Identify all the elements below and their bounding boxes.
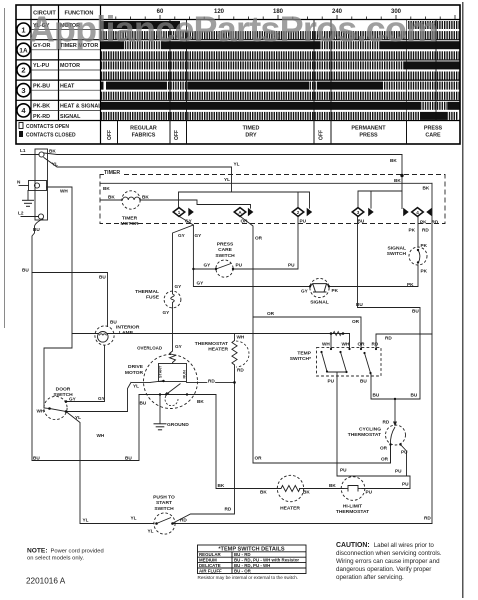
svg-text:WH: WH (37, 409, 45, 414)
motor winding box (159, 364, 187, 382)
svg-text:YL: YL (234, 162, 240, 167)
svg-text:GY: GY (204, 263, 212, 268)
wire RD right-side loop (431, 183, 433, 523)
wire BK segment to cam 3 (358, 191, 402, 208)
right follower of cam 4 (426, 208, 432, 216)
svg-text:MOTOR: MOTOR (125, 370, 144, 376)
svg-text:YL: YL (52, 162, 58, 167)
svg-text:BK: BK (103, 186, 110, 191)
follower of cam 3 (368, 208, 374, 216)
svg-text:RD: RD (225, 507, 232, 512)
svg-text:PK: PK (421, 243, 428, 248)
svg-text:DOOR: DOOR (56, 387, 71, 393)
svg-text:LAMP: LAMP (119, 330, 134, 336)
svg-text:RD: RD (372, 342, 379, 347)
page right border (462, 2, 464, 598)
svg-text:HI-LIMIT: HI-LIMIT (343, 504, 362, 510)
svg-text:RD: RD (208, 379, 215, 384)
signal switch dashed circle (409, 247, 427, 265)
svg-text:BU: BU (22, 268, 29, 273)
svg-text:RD: RD (383, 420, 390, 425)
thermal fuse element (171, 291, 175, 307)
motor ground lead (159, 395, 161, 424)
timer dashed enclosure (100, 175, 445, 224)
svg-text:WH: WH (342, 342, 350, 347)
svg-text:GY: GY (69, 397, 77, 402)
wire GY door switch to lamp (66, 346, 105, 402)
left follower of cam 4 (403, 208, 409, 216)
svg-text:PU: PU (366, 490, 373, 495)
press care switch blade (216, 264, 231, 270)
wire BK motor to heater (216, 395, 281, 489)
wire BU bottom run (32, 395, 139, 461)
svg-text:BU: BU (411, 393, 418, 398)
door switch dashed circle (44, 396, 67, 419)
svg-text:REGULAR: REGULAR (130, 126, 157, 132)
svg-text:PK: PK (407, 282, 414, 287)
svg-text:PU: PU (402, 482, 409, 487)
svg-text:CYCLING: CYCLING (359, 427, 381, 433)
svg-text:SWITCH: SWITCH (154, 506, 174, 512)
svg-text:BK: BK (303, 490, 310, 495)
svg-text:RD: RD (422, 228, 429, 233)
signal switch blade (418, 250, 420, 263)
svg-text:WH: WH (237, 335, 245, 340)
svg-text:THERMOSTAT: THERMOSTAT (348, 432, 381, 438)
svg-text:YL: YL (131, 516, 137, 521)
wire YL motor to door switch (66, 382, 150, 411)
svg-text:3: 3 (21, 86, 25, 95)
cycle boundary vertical lines across bars (170, 20, 436, 121)
wire GY to thermal fuse (173, 225, 194, 291)
wire BK bus y183 across timer (100, 182, 432, 184)
legend row cell borders (118, 121, 407, 145)
svg-text:THERMOSTAT: THERMOSTAT (195, 341, 228, 347)
heater dashed circle (277, 475, 303, 501)
svg-text:BK: BK (218, 483, 225, 488)
svg-text:SIGNAL: SIGNAL (60, 114, 81, 120)
svg-text:on select models only.: on select models only. (27, 556, 84, 562)
svg-text:YL-PU: YL-PU (33, 63, 49, 69)
svg-text:WH: WH (60, 189, 68, 194)
svg-text:2: 2 (21, 66, 25, 75)
svg-text:PRESS: PRESS (424, 126, 443, 132)
follower of cam 1 (188, 208, 194, 216)
wire BU to interior lamp (32, 273, 108, 327)
svg-text:L1: L1 (20, 148, 26, 153)
svg-text:FUSE: FUSE (146, 295, 160, 301)
wire OR from cycling thermostat (390, 445, 392, 464)
svg-text:BK: BK (390, 158, 397, 163)
cam switch 3 (352, 208, 364, 217)
svg-text:SWITCH: SWITCH (215, 253, 235, 259)
svg-text:GY: GY (175, 284, 183, 289)
ground symbol at terminal block (22, 200, 34, 206)
svg-text:BK: BK (394, 178, 401, 183)
svg-text:GY: GY (178, 233, 186, 238)
N stub wire (19, 185, 29, 187)
wire YL bus to cams 1,2 (179, 192, 310, 208)
svg-text:DRY: DRY (245, 133, 257, 139)
timer motor dashed circle (122, 191, 140, 209)
svg-text:SIGNAL: SIGNAL (310, 300, 328, 306)
press care switch dashed circle (216, 260, 233, 277)
svg-text:GY: GY (185, 219, 193, 224)
svg-text:RUN: RUN (183, 370, 187, 378)
wire WH from N (44, 187, 72, 408)
svg-text:GY: GY (163, 310, 171, 315)
svg-text:BK: BK (423, 186, 430, 191)
cam numerals (178, 210, 420, 215)
svg-text:operation after servicing.: operation after servicing. (336, 574, 404, 581)
svg-text:OR: OR (241, 219, 249, 224)
svg-text:CONTACTS CLOSED: CONTACTS CLOSED (26, 133, 76, 139)
cam diamonds and followers (173, 208, 423, 217)
wire PK cam4 through signal switch (329, 216, 418, 286)
svg-text:PUSH TO: PUSH TO (153, 495, 175, 501)
svg-text:NOTE:Power cord provided: NOTE:Power cord provided (27, 548, 104, 555)
wire BU from cam3 (358, 216, 421, 399)
svg-text:RD: RD (432, 220, 439, 225)
svg-text:THERMAL: THERMAL (135, 289, 159, 295)
svg-text:GY: GY (175, 344, 183, 349)
page left border (4, 8, 5, 328)
svg-text:CARE: CARE (425, 133, 441, 139)
drive motor dashed circle (144, 355, 198, 409)
svg-text:RD: RD (237, 368, 244, 373)
svg-text:START: START (159, 365, 163, 378)
svg-text:WH: WH (97, 433, 105, 438)
svg-text:REGULAR: REGULAR (199, 552, 222, 557)
wire RD feed to temp switch (376, 334, 432, 349)
svg-text:OR: OR (255, 236, 263, 241)
wire RD motor branch (187, 381, 235, 383)
svg-text:BU: BU (33, 456, 40, 461)
timer chart outer frame (16, 5, 460, 144)
push to start blade (157, 518, 172, 524)
svg-text:HEAT & SIGNAL: HEAT & SIGNAL (60, 104, 102, 110)
svg-text:SWITCH: SWITCH (387, 251, 407, 257)
svg-text:YL: YL (224, 177, 230, 182)
wire YL door switch lamp throw (66, 412, 154, 524)
svg-text:HEAT: HEAT (60, 83, 75, 89)
temp switch details table (198, 545, 307, 574)
wire timer motor left (100, 199, 122, 201)
svg-text:PU: PU (401, 450, 408, 455)
svg-text:AIR FLUFF: AIR FLUFF (199, 568, 222, 573)
svg-text:MOTOR: MOTOR (60, 63, 80, 69)
signal buzzer symbol (310, 284, 329, 292)
svg-text:OR: OR (380, 446, 388, 451)
svg-text:BU - RD, PU - WH: BU - RD, PU - WH (234, 563, 270, 568)
terminal L1 (39, 152, 44, 157)
motor centrifugal blade (166, 384, 181, 395)
svg-text:BU: BU (412, 309, 419, 314)
svg-text:BU: BU (125, 456, 132, 461)
wire RD thermostat heater riser (173, 334, 235, 524)
svg-text:PK: PK (332, 288, 339, 293)
svg-text:PK-RD: PK-RD (33, 114, 50, 120)
wire BK vertical into timer (401, 155, 403, 209)
svg-text:L2: L2 (18, 211, 24, 216)
svg-text:Resistor may be internal or ex: Resistor may be internal or external to … (198, 575, 299, 580)
svg-text:TIMED: TIMED (243, 126, 260, 132)
svg-text:BK: BK (142, 195, 149, 200)
motor centrifugal actuator arc (165, 395, 178, 406)
svg-text:PRESS: PRESS (217, 242, 234, 248)
follower of cam 1A (248, 208, 254, 216)
svg-text:TIMER: TIMER (104, 170, 120, 176)
svg-text:PK: PK (421, 269, 428, 274)
svg-text:PK: PK (420, 220, 427, 225)
resistor on WH feed (333, 332, 341, 336)
wire PU from cycling thermostat (401, 445, 407, 477)
interior lamp dashed circle (95, 326, 114, 345)
svg-text:2: 2 (297, 210, 300, 215)
thermostat heater element (232, 341, 237, 368)
legend: contacts closed symbol (19, 131, 23, 137)
circuit number circles (17, 23, 30, 117)
svg-text:BK: BK (49, 149, 56, 154)
timeline numbers (157, 9, 402, 15)
hi-limit thermostat dashed circle (341, 477, 365, 501)
terminal L2 (38, 214, 43, 219)
svg-text:BK: BK (108, 195, 115, 200)
wire PU press care to cam2 (233, 216, 298, 269)
svg-text:MOTOR: MOTOR (120, 221, 139, 227)
ground drop from N (27, 191, 29, 201)
svg-text:OR: OR (267, 311, 275, 316)
wire BU bus above cycling thermostat (371, 373, 420, 399)
svg-text:INTERIOR: INTERIOR (116, 325, 140, 331)
svg-text:HEATER: HEATER (280, 506, 300, 512)
timer motor coil (123, 197, 140, 200)
cycling thermostat feed arrowhead (393, 422, 397, 427)
svg-text:YL: YL (75, 415, 81, 420)
svg-text:BU: BU (360, 379, 367, 384)
wire GY cam1 junction fan (179, 216, 310, 286)
svg-text:OR: OR (255, 456, 263, 461)
svg-text:OR: OR (358, 342, 366, 347)
svg-text:PRESS: PRESS (359, 133, 378, 139)
interior lamp bulb (98, 332, 109, 343)
cycling thermostat dashed circle (386, 425, 406, 445)
svg-text:OFF: OFF (107, 130, 113, 140)
svg-text:TEMP: TEMP (297, 351, 311, 357)
svg-text:YL: YL (148, 529, 154, 534)
svg-text:BU: BU (373, 393, 380, 398)
wire motor lower bus (139, 394, 216, 396)
svg-text:OR: OR (352, 319, 360, 324)
svg-text:BU: BU (140, 401, 147, 406)
svg-text:PU: PU (236, 263, 243, 268)
svg-text:GY: GY (195, 233, 203, 238)
svg-text:GROUND: GROUND (167, 422, 189, 428)
wire YL drop (231, 167, 233, 192)
junction and contact dots (48, 174, 419, 525)
terminal block outline (35, 149, 48, 220)
svg-text:BU: BU (356, 302, 363, 307)
heater element (281, 486, 300, 492)
svg-text:PU: PU (340, 468, 347, 473)
svg-text:BU - OR: BU - OR (234, 568, 252, 573)
svg-text:CONTACTS OPEN: CONTACTS OPEN (26, 124, 69, 130)
L2 stub wire (21, 216, 38, 218)
signal buzzer dashed circle (310, 278, 329, 297)
svg-text:BU: BU (358, 219, 365, 224)
thermostat heater dashed arc (236, 341, 249, 367)
timer cam bars: solid=contacts closed, striped=contacts open (101, 21, 460, 120)
svg-text:1: 1 (21, 25, 25, 34)
svg-text:CARE: CARE (218, 247, 233, 253)
wire OR branch to temp switch (253, 317, 361, 349)
ground symbol at motor (154, 424, 167, 430)
svg-text:CAUTION:Label all wires prior: CAUTION:Label all wires prior to (336, 542, 434, 549)
wire timer motor right to cam 1A (140, 200, 251, 208)
svg-text:PU: PU (300, 219, 307, 224)
svg-text:dangerous operation. Verify pr: dangerous operation. Verify proper (336, 566, 431, 573)
svg-text:HEATER: HEATER (208, 347, 228, 353)
wire PU hi-limit out (362, 476, 410, 489)
svg-text:1: 1 (178, 210, 181, 215)
svg-text:PU: PU (328, 379, 335, 384)
svg-text:PU: PU (288, 263, 295, 268)
L1 stub wire (21, 154, 39, 156)
timeline ticks (101, 15, 455, 20)
svg-text:TIMER: TIMER (122, 216, 138, 222)
motor start contact blade (150, 381, 164, 383)
chart row mid dividers (31, 30, 101, 111)
svg-text:PU: PU (395, 469, 402, 474)
svg-text:OFF: OFF (174, 130, 180, 140)
svg-text:PERMANENT: PERMANENT (351, 126, 386, 132)
svg-text:OVERLOAD: OVERLOAD (137, 346, 162, 351)
svg-text:GY: GY (301, 289, 309, 294)
cam switch 1A (234, 208, 246, 217)
svg-text:PK: PK (409, 228, 416, 233)
svg-text:RD: RD (424, 516, 431, 521)
svg-text:AppliancePartsPros.com: AppliancePartsPros.com (29, 9, 438, 50)
wire OR from cam 1A down (240, 216, 253, 463)
push to start switch dashed circle (154, 513, 175, 534)
svg-text:Wiring errors can cause improp: Wiring errors can cause improper and (336, 558, 440, 565)
temp switch dashed box (317, 348, 382, 376)
svg-text:THERMOSTAT: THERMOSTAT (336, 509, 369, 515)
svg-text:MEDIUM: MEDIUM (199, 558, 217, 563)
cycle names (107, 126, 443, 141)
svg-text:START: START (156, 500, 172, 506)
cam switch 2 (292, 208, 304, 217)
wire GY thermal fuse to motor (172, 308, 174, 351)
svg-text:BU: BU (33, 227, 40, 232)
cam switch 1 (173, 208, 185, 217)
svg-text:BU: BU (99, 275, 106, 280)
svg-text:SIGNAL: SIGNAL (388, 246, 406, 252)
svg-text:DELICATE: DELICATE (199, 563, 221, 568)
wire PU line to temp switch (337, 372, 410, 476)
wire WH drops into temp switch (331, 334, 350, 350)
svg-text:BK: BK (329, 483, 336, 488)
wire BK from L1 to right (44, 153, 402, 155)
svg-text:SWITCH*: SWITCH* (290, 356, 311, 362)
svg-text:PK-BU: PK-BU (33, 83, 50, 89)
wire YL from L1 diagonal (44, 158, 232, 168)
terminal N (34, 183, 39, 188)
wire RD main bottom bus (173, 523, 433, 525)
circuit / function text rows (33, 23, 102, 120)
follower of cam 2 (307, 208, 313, 216)
svg-text:YL: YL (83, 518, 89, 523)
wire BU from L2 down left side (32, 219, 43, 461)
svg-text:FABRICS: FABRICS (132, 133, 156, 139)
wire WH door switch pole (44, 407, 50, 410)
wire feed cycling thermostat (394, 399, 396, 424)
svg-text:DRIVE: DRIVE (128, 364, 144, 370)
svg-text:OR: OR (381, 457, 389, 462)
door switch blade (50, 409, 67, 412)
svg-text:RD: RD (180, 518, 187, 523)
cycling thermostat blade (390, 427, 395, 445)
svg-text:RD: RD (385, 336, 392, 341)
wire WH branch to temp switch (72, 333, 350, 335)
thermal fuse dashed circle (164, 291, 181, 308)
svg-text:BK: BK (260, 490, 267, 495)
svg-text:2201016 A: 2201016 A (26, 577, 66, 586)
motor overload protector (170, 351, 176, 364)
svg-text:BU: BU (110, 320, 117, 325)
svg-text:OFF: OFF (319, 130, 325, 140)
temp switch blades (322, 352, 372, 375)
hi-limit thermostat symbol (348, 486, 358, 492)
legend: contacts open symbol (19, 123, 23, 129)
svg-text:1A: 1A (19, 48, 28, 55)
cam switch 4 (412, 208, 424, 217)
svg-text:GY: GY (197, 281, 205, 286)
neutral terminal box (29, 181, 47, 191)
svg-text:BK: BK (197, 399, 204, 404)
svg-text:WH: WH (322, 342, 330, 347)
chart grid lines (16, 5, 460, 144)
svg-text:PK-BK: PK-BK (33, 104, 50, 110)
svg-text:BU - RD: BU - RD (234, 552, 251, 557)
wire GY press care branch (193, 268, 216, 270)
svg-text:GY: GY (98, 396, 106, 401)
svg-text:disconnection when servicing c: disconnection when servicing controls. (336, 550, 442, 557)
svg-text:3: 3 (357, 210, 360, 215)
svg-text:YL: YL (133, 384, 139, 389)
svg-text:*TEMP SWITCH DETAILS: *TEMP SWITCH DETAILS (218, 547, 285, 553)
wire heater to hi-limit (300, 488, 345, 490)
wire OR bottom to cycling thermostat (253, 445, 391, 463)
svg-text:4: 4 (416, 210, 419, 215)
svg-text:BU - RD, PU - WH with Resistor: BU - RD, PU - WH with Resistor (234, 558, 299, 563)
